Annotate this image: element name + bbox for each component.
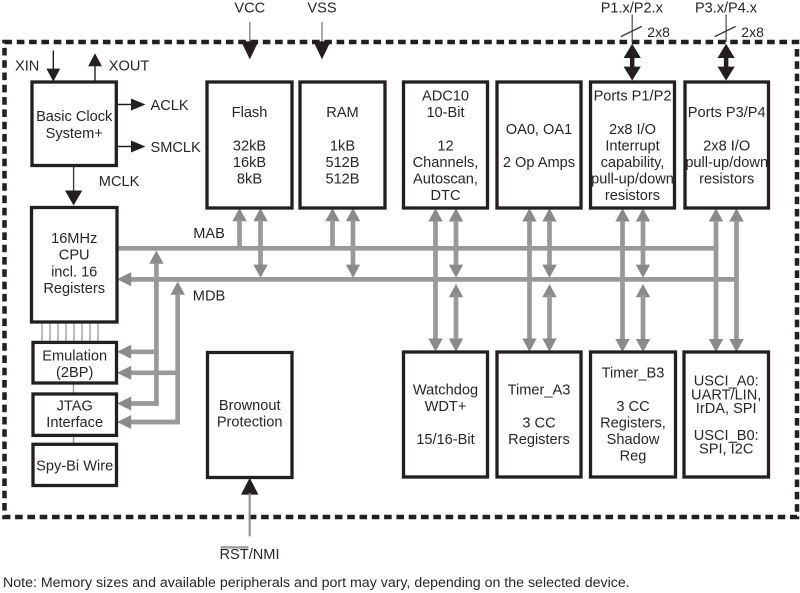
svg-text:CPU: CPU bbox=[59, 248, 90, 264]
svg-text:RST/NMI: RST/NMI bbox=[220, 547, 280, 563]
block Flash bbox=[207, 82, 292, 208]
svg-text:Autoscan,: Autoscan, bbox=[413, 172, 478, 188]
svg-text:Registers,: Registers, bbox=[600, 416, 666, 432]
svg-text:Note: Memory sizes and availab: Note: Memory sizes and available periphe… bbox=[3, 575, 630, 591]
block JTAG Interface bbox=[33, 394, 117, 435]
block CPU bbox=[32, 208, 118, 323]
svg-text:Spy-Bi Wire: Spy-Bi Wire bbox=[36, 458, 113, 474]
wire MDB arrow into CPU bbox=[117, 272, 131, 286]
svg-text:P3.x/P4.x: P3.x/P4.x bbox=[695, 0, 758, 16]
wire ADC10-Watchdog left arrow bbox=[428, 208, 442, 351]
svg-text:MDB: MDB bbox=[193, 288, 225, 304]
pin SMCLK bbox=[117, 140, 202, 156]
svg-text:Basic Clock: Basic Clock bbox=[36, 109, 113, 125]
svg-text:MCLK: MCLK bbox=[99, 174, 140, 190]
svg-text:resistors: resistors bbox=[605, 188, 660, 204]
svg-text:1kB: 1kB bbox=[330, 138, 355, 154]
svg-text:RAM: RAM bbox=[326, 105, 358, 121]
svg-text:2x8: 2x8 bbox=[741, 24, 764, 40]
svg-text:2x8: 2x8 bbox=[647, 24, 670, 40]
block OA op amps bbox=[497, 82, 581, 208]
svg-text:Watchdog: Watchdog bbox=[413, 382, 478, 398]
wire MAB to emulation/JTAG line A bbox=[117, 251, 164, 411]
svg-text:15/16-Bit: 15/16-Bit bbox=[416, 432, 474, 448]
pin XIN bbox=[15, 51, 60, 82]
wire Flash MDB arrow bbox=[253, 208, 267, 278]
svg-text:Shadow: Shadow bbox=[607, 432, 660, 448]
svg-text:P1.x/P2.x: P1.x/P2.x bbox=[601, 0, 664, 16]
svg-text:ADC10: ADC10 bbox=[422, 89, 469, 105]
svg-text:2x8 I/O: 2x8 I/O bbox=[703, 138, 750, 154]
wire RAM MDB arrow bbox=[346, 208, 360, 278]
svg-text:IrDA, SPI: IrDA, SPI bbox=[696, 401, 757, 417]
svg-text:32kB: 32kB bbox=[233, 138, 266, 154]
svg-text:Ports P3/P4: Ports P3/P4 bbox=[688, 105, 766, 121]
svg-text:pull-up/down: pull-up/down bbox=[685, 155, 768, 171]
wire Emulation to JTAG bbox=[73, 383, 75, 394]
block Ports P1/P2 bbox=[591, 82, 675, 208]
svg-text:pull-up/down: pull-up/down bbox=[591, 172, 674, 188]
svg-text:VSS: VSS bbox=[307, 0, 336, 16]
svg-text:Channels,: Channels, bbox=[413, 155, 479, 171]
svg-text:Emulation: Emulation bbox=[42, 348, 107, 364]
svg-text:Brownout: Brownout bbox=[219, 398, 281, 414]
svg-text:512B: 512B bbox=[325, 172, 359, 188]
svg-text:Registers: Registers bbox=[43, 281, 105, 297]
svg-text:SMCLK: SMCLK bbox=[151, 140, 202, 156]
pin XOUT bbox=[88, 53, 149, 82]
svg-text:JTAG: JTAG bbox=[57, 399, 93, 415]
svg-text:ACLK: ACLK bbox=[151, 98, 189, 114]
svg-text:capability,: capability, bbox=[601, 155, 665, 171]
svg-text:XIN: XIN bbox=[15, 58, 39, 74]
pin P3.x/P4.x bbox=[695, 0, 764, 80]
block Brownout Protection bbox=[208, 353, 293, 478]
wire OA-MDB-TimerA3 right arrows bbox=[542, 208, 556, 351]
svg-text:OA0, OA1: OA0, OA1 bbox=[506, 122, 573, 138]
wire PortsP1P2-MDB-TimerB3 right arrows bbox=[636, 208, 650, 352]
svg-text:3 CC: 3 CC bbox=[522, 416, 555, 432]
svg-text:XOUT: XOUT bbox=[109, 58, 150, 74]
wire MDB to emulation/JTAG line B bbox=[117, 282, 185, 430]
svg-text:SPI, I2C: SPI, I2C bbox=[699, 442, 753, 458]
block Timer_A3 bbox=[497, 352, 581, 477]
svg-text:Registers: Registers bbox=[508, 432, 570, 448]
block ADC10 bbox=[404, 82, 488, 208]
wire JTAG to SpyBiWire bbox=[73, 435, 75, 444]
wire MCLK arrow BasicClock to CPU bbox=[65, 166, 140, 206]
svg-text:DTC: DTC bbox=[431, 188, 461, 204]
svg-text:16MHz: 16MHz bbox=[51, 231, 97, 247]
svg-text:(2BP): (2BP) bbox=[56, 365, 93, 381]
svg-text:VCC: VCC bbox=[234, 0, 265, 16]
svg-text:Timer_A3: Timer_A3 bbox=[508, 382, 571, 398]
block USCI bbox=[684, 352, 769, 477]
svg-text:incl. 16: incl. 16 bbox=[51, 264, 97, 280]
pin ACLK bbox=[117, 98, 189, 114]
svg-text:WDT+: WDT+ bbox=[425, 399, 467, 415]
svg-text:12: 12 bbox=[437, 138, 453, 154]
svg-text:Ports P1/P2: Ports P1/P2 bbox=[594, 89, 672, 105]
wire RAM MAB arrow bbox=[325, 208, 339, 250]
wire OA-TimerA3 left arrow bbox=[522, 208, 536, 351]
svg-text:Timer_B3: Timer_B3 bbox=[602, 366, 665, 382]
chip boundary dashed border bbox=[5, 42, 798, 517]
wire ADC10-MDB-Watchdog right arrows bbox=[449, 208, 463, 351]
pin P1.x/P2.x bbox=[601, 0, 670, 80]
wire MAB bus bbox=[117, 246, 718, 251]
svg-text:8kB: 8kB bbox=[237, 172, 262, 188]
block Basic Clock System bbox=[32, 82, 116, 166]
svg-text:Flash: Flash bbox=[232, 105, 268, 121]
svg-text:512B: 512B bbox=[325, 155, 359, 171]
pin RST/NMI bbox=[220, 478, 280, 563]
wire MDB bus bbox=[129, 277, 739, 282]
block Spy-Bi Wire bbox=[33, 444, 117, 485]
wire Flash MAB arrow bbox=[232, 208, 246, 250]
svg-text:Reg: Reg bbox=[620, 449, 647, 465]
svg-text:Interrupt: Interrupt bbox=[605, 138, 659, 154]
block Emulation bbox=[33, 342, 117, 383]
svg-text:2x8 I/O: 2x8 I/O bbox=[609, 122, 656, 138]
svg-text:10-Bit: 10-Bit bbox=[426, 105, 464, 121]
wire emulation bus lines CPU to Emulation bbox=[42, 322, 98, 342]
svg-text:MAB: MAB bbox=[193, 226, 225, 242]
wire PortsP3P4-USCI right arrow bbox=[729, 208, 743, 352]
pin VCC bbox=[234, 0, 265, 59]
wire PortsP3P4-USCI left arrow bbox=[709, 208, 723, 352]
block RAM bbox=[300, 82, 385, 208]
pin VSS bbox=[307, 0, 336, 59]
block Timer_B3 bbox=[591, 352, 676, 477]
svg-text:Protection: Protection bbox=[217, 415, 283, 431]
svg-text:16kB: 16kB bbox=[233, 155, 266, 171]
svg-text:3 CC: 3 CC bbox=[616, 399, 649, 415]
block Watchdog WDT+ bbox=[404, 352, 488, 477]
svg-text:System+: System+ bbox=[46, 126, 103, 142]
wire PortsP1P2-TimerB3 left arrow bbox=[615, 208, 629, 352]
block Ports P3/P4 bbox=[685, 82, 769, 208]
svg-text:resistors: resistors bbox=[699, 172, 754, 188]
svg-text:Interface: Interface bbox=[46, 415, 103, 431]
svg-text:2 Op Amps: 2 Op Amps bbox=[503, 155, 575, 171]
